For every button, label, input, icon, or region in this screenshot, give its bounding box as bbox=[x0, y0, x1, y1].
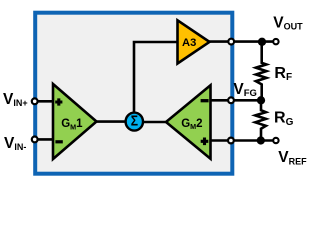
GM2 noninverting pin + bbox=[201, 138, 209, 146]
block outline U1 bbox=[35, 13, 232, 174]
boundary pin circle VIN+ bbox=[32, 98, 38, 104]
boundary pin circle VREF bbox=[228, 138, 234, 144]
summing node sigma bbox=[126, 113, 143, 131]
boundary pin circle VFG bbox=[228, 97, 234, 103]
svg-text:A3: A3 bbox=[182, 37, 196, 49]
wire summing node to A3 input bbox=[134, 42, 179, 114]
wire summing node to GM2 output bbox=[140, 121, 168, 124]
wire VREF net bbox=[209, 139, 273, 142]
wire VFG net bbox=[209, 99, 261, 102]
GM1 inverting pin - bbox=[55, 140, 62, 143]
junction dot VREF node bbox=[257, 136, 265, 144]
resistor RF bbox=[256, 42, 267, 100]
op-amp A3 bbox=[178, 20, 210, 63]
terminal circle VOUT bbox=[273, 39, 278, 44]
wire A3 output to VOUT bbox=[208, 40, 273, 43]
boundary pin circle VOUT bbox=[228, 39, 234, 45]
terminal circle VREF bbox=[273, 138, 278, 143]
transconductance amp GM1 bbox=[53, 84, 97, 159]
resistor RG bbox=[255, 100, 266, 141]
boundary pin circle VIN- bbox=[32, 137, 38, 143]
wire V_IN- input bbox=[35, 138, 55, 141]
transconductance amp GM2 bbox=[166, 85, 211, 158]
wire GM1 output to summing node bbox=[95, 120, 128, 123]
wire V_IN+ input bbox=[35, 100, 55, 103]
junction dot VOUT node bbox=[258, 38, 266, 46]
GM1 noninverting pin + bbox=[55, 98, 62, 105]
junction dot VFG node bbox=[257, 96, 265, 104]
GM2 inverting pin - bbox=[201, 99, 209, 102]
svg-text:Σ: Σ bbox=[131, 114, 138, 130]
